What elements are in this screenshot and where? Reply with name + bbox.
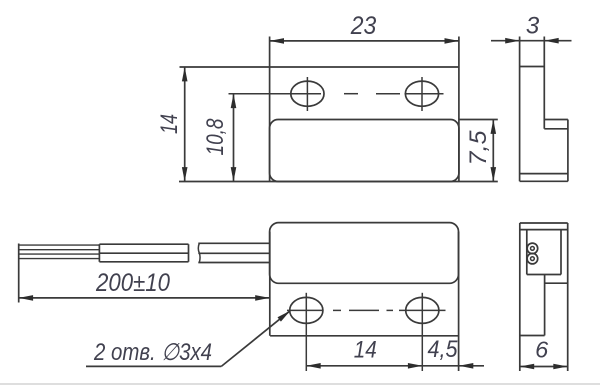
- svg-text:2 отв. ∅3х4: 2 отв. ∅3х4: [93, 339, 212, 366]
- leader line: [221, 311, 290, 367]
- hole centerline vertical right: [421, 77, 423, 111]
- 4.5 outside right: [459, 363, 473, 369]
- svg-text:23: 23: [350, 12, 377, 40]
- cable section A: [99, 243, 188, 245]
- svg-text:7,5: 7,5: [465, 130, 492, 166]
- svg-text:3: 3: [526, 12, 540, 39]
- dim 23 line: [270, 40, 459, 42]
- dim 10.8 line: [233, 94, 235, 182]
- bottom view body: [270, 223, 459, 284]
- leader arrow: [278, 311, 291, 322]
- 23: [270, 38, 284, 44]
- svg-text:4,5: 4,5: [428, 336, 459, 363]
- front view body rounded rect: [270, 120, 459, 182]
- dim 4.5 line: [422, 365, 459, 367]
- dim 14 line: [184, 67, 186, 182]
- svg-text:6: 6: [535, 337, 549, 363]
- wire strands: [19, 245, 100, 259]
- 3 (outside): [505, 38, 519, 44]
- hole centerline vertical left: [306, 77, 308, 111]
- dim 14 bottom line: [306, 365, 422, 367]
- hole right bottom: [406, 297, 439, 323]
- dim 6 line: [520, 366, 568, 368]
- svg-text:10,8: 10,8: [202, 118, 229, 156]
- 10.8: [231, 94, 237, 108]
- side view top: [519, 37, 521, 182]
- front view bottom edge with extensions: [179, 181, 498, 183]
- arrows: [19, 38, 568, 369]
- centerline horizontal front: [229, 93, 322, 95]
- 14 bottom: [306, 363, 320, 369]
- dim 200 extension left: [18, 244, 20, 303]
- front view body top extension right: [459, 119, 498, 121]
- dim 3 line: [491, 40, 572, 42]
- 14 left: [182, 67, 188, 81]
- side view bottom: [520, 222, 568, 224]
- hole left bottom: [290, 297, 323, 323]
- hole left front: [291, 81, 324, 106]
- wire circles: [527, 243, 538, 254]
- 7.5: [491, 120, 497, 134]
- hole right front: [405, 81, 438, 106]
- dim 7.5 line: [492, 120, 494, 182]
- front view plate outline: [269, 37, 271, 182]
- leader shelf: [86, 365, 221, 367]
- 200+-10: [19, 295, 33, 301]
- centerline horizontal bottom: [287, 309, 324, 311]
- faint scan line bottom: [0, 383, 600, 385]
- dim 200 line: [19, 297, 270, 299]
- svg-text:200±10: 200±10: [95, 269, 170, 297]
- svg-text:14: 14: [354, 336, 377, 363]
- cable section B: [198, 242, 269, 244]
- 6: [520, 364, 534, 370]
- svg-text:14: 14: [156, 114, 183, 134]
